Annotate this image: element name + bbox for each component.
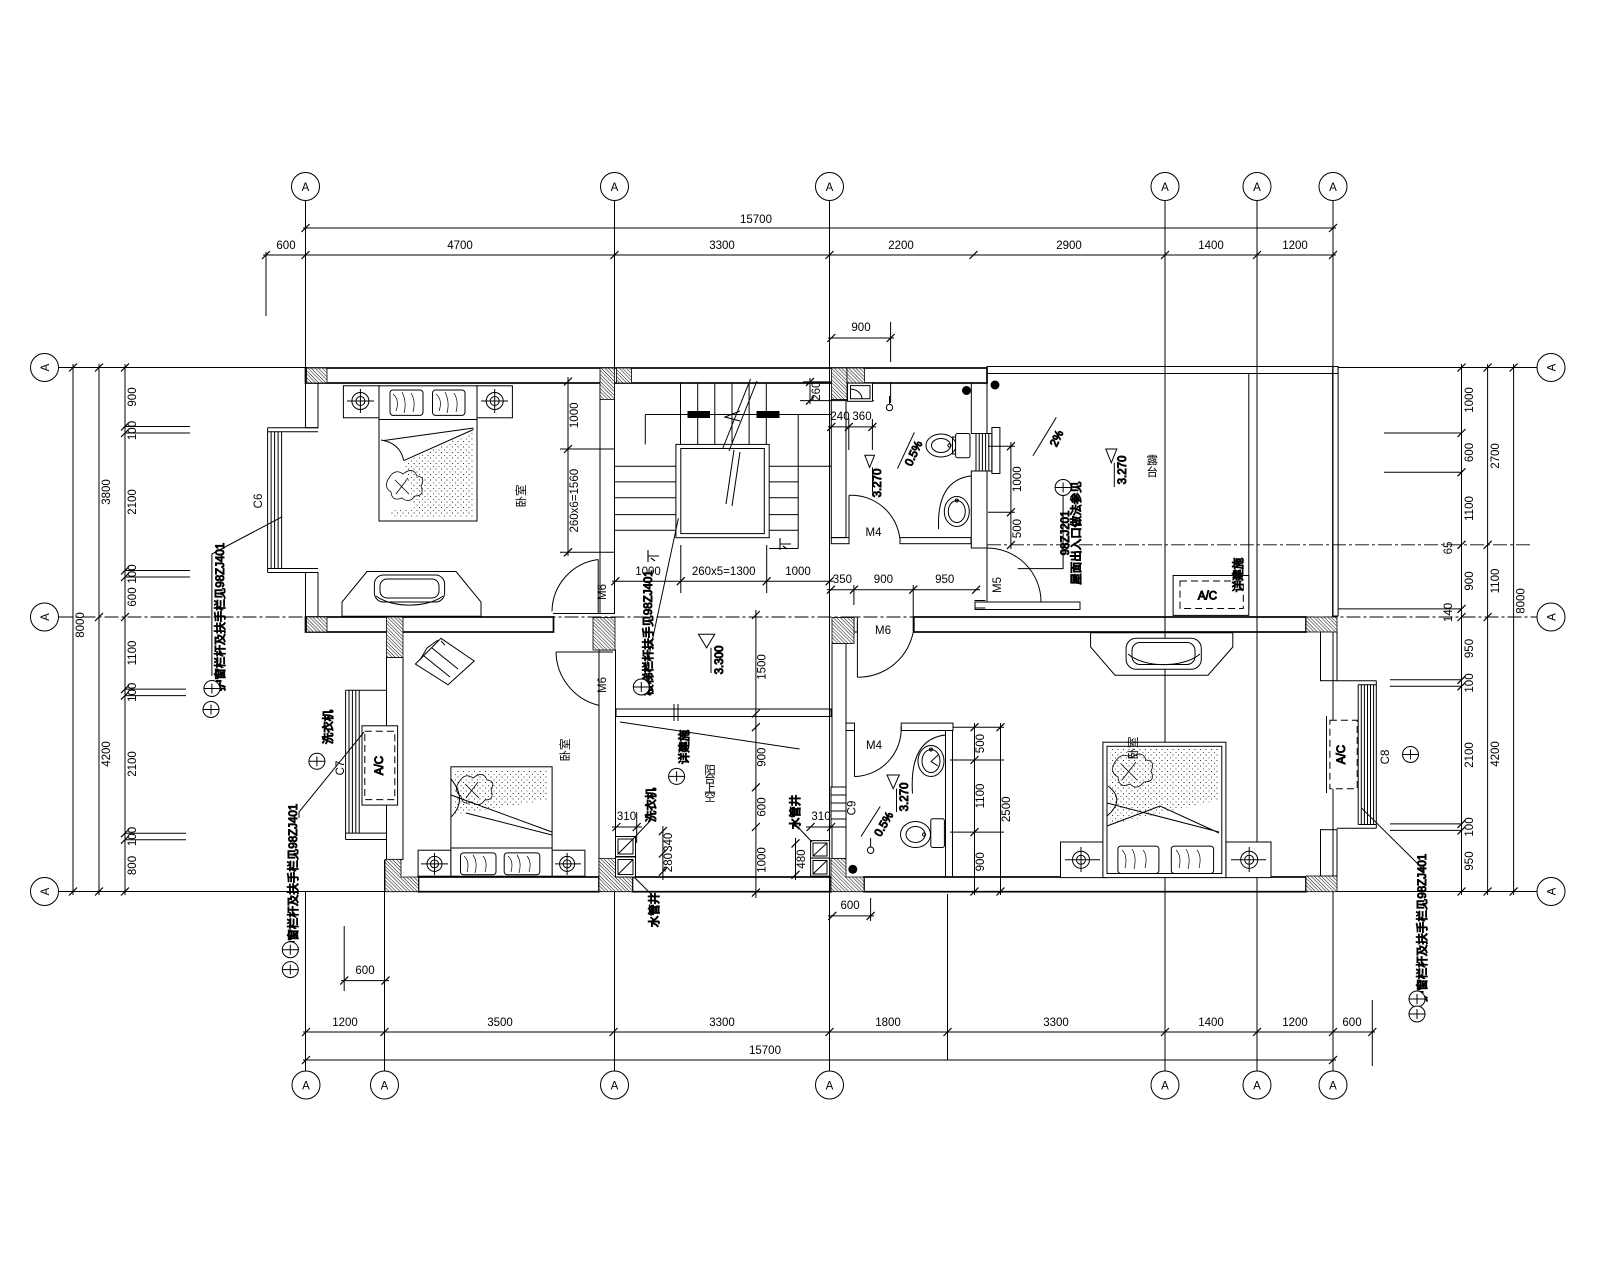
wardrobe chair rotated (415, 638, 474, 685)
wall left upper (306, 383, 319, 428)
slope 2% terrace (1033, 417, 1056, 456)
wire vertical axis A-614 (614, 201, 616, 369)
node grid bubble bottom B4 (816, 1071, 844, 1099)
stair well outer (676, 444, 769, 537)
svg-text:360: 360 (852, 411, 871, 423)
nightstand right (552, 850, 585, 876)
pier balcony wall bottom L (385, 859, 419, 891)
door M6 bottom-right bedroom (856, 622, 858, 678)
pier W2 top (832, 618, 854, 644)
wire horizontal axis row-367 (59, 367, 308, 369)
wall terrace bottom parapet west (975, 602, 1080, 610)
door M5 terrace (986, 548, 988, 602)
wire vertical axis A-1333 (1332, 201, 1334, 1072)
svg-text:1200: 1200 (1282, 240, 1308, 252)
leader notes right C8 (1361, 808, 1422, 872)
svg-text:M6: M6 (597, 584, 609, 600)
dresser with stool (1091, 633, 1233, 675)
pier bedroom2 top right (1306, 617, 1337, 632)
svg-text:台: 台 (1147, 465, 1159, 479)
svg-text:M6: M6 (597, 677, 609, 693)
svg-text:3300: 3300 (1043, 1017, 1069, 1029)
svg-text:屋面出入口做法参见: 屋面出入口做法参见 (1069, 481, 1083, 585)
floor drain dots (963, 387, 971, 395)
flower deco 3 (1113, 754, 1153, 787)
bottom-right bedroom furniture (1061, 633, 1272, 878)
node grid bubble left L2 (31, 603, 59, 631)
bottom-left bedroom furniture (415, 638, 584, 876)
bottom dimension row 15700 (303, 1059, 1336, 1061)
wall bathroom2 top right (901, 723, 953, 730)
svg-text:详建施: 详建施 (677, 729, 691, 764)
node grid bubble top A5 (1243, 173, 1271, 201)
svg-text:600: 600 (355, 965, 374, 977)
level marker 3.270 bathroom2 (887, 775, 899, 789)
svg-text:洗衣机: 洗衣机 (644, 787, 658, 822)
svg-text:260x5=1300: 260x5=1300 (692, 566, 756, 578)
right dimension columns (1338, 364, 1528, 896)
pier balcony wall top (387, 617, 404, 658)
svg-text:600: 600 (841, 900, 860, 912)
svg-text:1100: 1100 (1490, 569, 1502, 594)
nightstand left (343, 386, 379, 418)
door M4 bathroom1 (848, 495, 850, 539)
svg-text:240: 240 (830, 411, 849, 423)
svg-text:2200: 2200 (888, 240, 914, 252)
grid bubbles (31, 173, 1566, 1100)
svg-text:900: 900 (757, 748, 769, 767)
wire horizontal axis row-617 dash-dot (59, 616, 1538, 618)
svg-text:1100: 1100 (127, 641, 139, 666)
svg-text:1000: 1000 (1464, 387, 1476, 413)
node grid bubble right R1 (1537, 354, 1565, 382)
svg-text:1500: 1500 (757, 654, 769, 680)
svg-text:空: 空 (704, 790, 716, 804)
svg-text:1000: 1000 (569, 403, 581, 429)
stair down glyph right (780, 538, 791, 550)
svg-text:900: 900 (127, 387, 139, 406)
svg-text:A/C: A/C (1336, 745, 1348, 764)
svg-text:M6: M6 (875, 625, 891, 637)
svg-text:15700: 15700 (749, 1045, 781, 1057)
wall bathroom2 top jamb (846, 723, 855, 730)
left dimension columns (69, 364, 190, 896)
dresser with stool top-left room (342, 572, 481, 617)
wire vertical axis A-384 (384, 860, 386, 1071)
svg-text:310: 310 (617, 811, 636, 823)
shower tray (848, 383, 873, 401)
dimension 600 at balcony (341, 980, 389, 982)
svg-text:C6: C6 (253, 494, 265, 509)
svg-text:3.270: 3.270 (1117, 456, 1129, 485)
wire vertical axis A-1165 (1164, 201, 1166, 1072)
bed 1 (379, 386, 477, 521)
wall left lower (306, 573, 319, 633)
svg-text:950: 950 (1464, 639, 1476, 658)
dims 240 360 (828, 426, 876, 428)
svg-text:1200: 1200 (1282, 1017, 1308, 1029)
pipe shaft squares (811, 841, 830, 859)
wall jamb middle (854, 617, 857, 632)
slope 0.5% bathroom2 (861, 807, 880, 837)
pier top-left corner (307, 368, 328, 383)
svg-text:护窗栏杆及扶手栏见98ZJ401: 护窗栏杆及扶手栏见98ZJ401 (286, 804, 300, 952)
svg-text:C9: C9 (847, 801, 859, 816)
flower deco 2 (456, 774, 492, 804)
bay window C6 (268, 428, 318, 573)
pier stair left (600, 368, 615, 400)
svg-text:1000: 1000 (757, 847, 769, 873)
level marker 3.270 bathroom1 (698, 417, 1129, 838)
svg-text:950: 950 (1464, 851, 1476, 870)
svg-text:600: 600 (276, 240, 295, 252)
threshold line top-left bedroom door (553, 613, 611, 615)
bathroom1 fixtures (848, 381, 1000, 529)
node grid bubble top A1 (292, 173, 320, 201)
dimension 900 above bathroom (828, 337, 894, 339)
wall W2 upper (832, 644, 846, 788)
stair right flight treads (769, 465, 831, 467)
svg-text:3500: 3500 (487, 1017, 513, 1029)
door M4 bathroom2 (854, 728, 856, 777)
pier middle row left end (307, 617, 328, 632)
svg-text:1000: 1000 (785, 566, 811, 578)
top-left bedroom furniture (343, 386, 512, 521)
door M6 top-left bedroom (597, 560, 599, 614)
svg-text:260: 260 (811, 382, 823, 401)
wall top exterior (306, 368, 988, 383)
top dimension row 15700 (262, 214, 1376, 1066)
bathroom1 dims 350 900 950 (800, 378, 1024, 631)
svg-text:M4: M4 (866, 527, 883, 539)
wire vertical axis A-947 (947, 894, 949, 1060)
walls (306, 367, 1339, 892)
wall balcony void parapet (616, 709, 831, 717)
pier W1 bottom L (599, 859, 633, 892)
wall bedroom2 right lower (1321, 830, 1338, 876)
svg-text:楼梯栏杆扶手见98ZJ401: 楼梯栏杆扶手见98ZJ401 (641, 570, 655, 695)
wall terrace top parapet (987, 367, 1338, 374)
node grid bubble right R3 (1537, 878, 1565, 906)
wire vertical axis A-829 (829, 201, 831, 1072)
level marker 3.270 terrace (1106, 449, 1117, 463)
svg-text:310: 310 (811, 811, 830, 823)
svg-text:2700: 2700 (1490, 443, 1502, 469)
axis grid lines (59, 201, 1538, 1072)
svg-text:2900: 2900 (1056, 240, 1082, 252)
stair direction arrow with break (729, 381, 757, 451)
svg-text:100: 100 (127, 564, 139, 583)
wall middle row left (306, 617, 554, 632)
slope 0.5% bathroom1 (898, 432, 915, 468)
bathroom2 dims (828, 723, 1013, 921)
node grid bubble right R2 (1537, 603, 1565, 631)
node grid bubble top A2 (601, 173, 629, 201)
svg-text:A/C: A/C (1198, 591, 1217, 603)
door window labels (253, 494, 1392, 816)
node grid bubble top A3 (816, 173, 844, 201)
window C8 bay (1337, 681, 1377, 829)
svg-text:3.270: 3.270 (872, 469, 884, 498)
flower deco (386, 470, 422, 500)
wall balcony divider (387, 658, 404, 860)
toilet 1 (926, 434, 956, 457)
svg-text:500: 500 (1012, 519, 1024, 538)
pier W1 top (593, 618, 615, 651)
svg-text:卧室: 卧室 (514, 485, 528, 508)
pier top wall seg (617, 368, 632, 383)
roof access note (1055, 480, 1071, 496)
svg-text:3800: 3800 (101, 479, 113, 505)
nightstand right (477, 386, 512, 418)
toilet 2 (901, 822, 931, 848)
pier top wall seg2 (847, 368, 865, 383)
hatched piers (307, 368, 1338, 892)
wall stair left (600, 383, 615, 614)
C8 A/C unit (1327, 716, 1358, 793)
wall bathroom1 left (831, 400, 846, 538)
node grid bubble left L1 (31, 354, 59, 382)
svg-text:100: 100 (1464, 673, 1476, 692)
terrace dims 1000 500 (1010, 442, 1012, 549)
bed 3 (1103, 742, 1226, 877)
svg-text:600: 600 (1464, 443, 1476, 462)
bathroom2 fixtures (849, 735, 946, 873)
node grid bubble bottom B3 (601, 1071, 629, 1099)
svg-text:护窗栏杆及扶手栏见98ZJ401: 护窗栏杆及扶手栏见98ZJ401 (213, 543, 227, 691)
bottom dimension row segments (303, 1031, 1375, 1033)
svg-text:100: 100 (1464, 817, 1476, 836)
wire horizontal axis row-891 (59, 891, 389, 893)
top dimension row segments (263, 254, 1336, 256)
laundry dims (612, 811, 835, 880)
svg-text:A/C: A/C (374, 756, 386, 775)
svg-text:1100: 1100 (1464, 496, 1476, 521)
svg-text:4700: 4700 (447, 240, 473, 252)
pier bathroom1 left (832, 368, 848, 400)
pier bottom right corner (1306, 876, 1337, 892)
svg-text:3.270: 3.270 (899, 783, 911, 812)
svg-text:M5: M5 (992, 577, 1004, 593)
dim 260 vertical (809, 378, 811, 404)
wire horizontal axis row-545 dash-dot (987, 544, 1530, 546)
wall W1 bedroom/hall (599, 650, 616, 877)
tick pair on void wall (673, 704, 675, 721)
svg-text:100: 100 (127, 421, 139, 440)
svg-text:280: 280 (663, 853, 675, 872)
svg-text:8000: 8000 (75, 612, 87, 638)
window C7 balcony rail (346, 690, 387, 839)
svg-text:护窗栏杆及扶手栏见98ZJ401: 护窗栏杆及扶手栏见98ZJ401 (1415, 854, 1429, 1002)
svg-text:详建施: 详建施 (1231, 557, 1245, 592)
svg-text:900: 900 (874, 574, 893, 586)
node grid bubble bottom B7 (1319, 1071, 1347, 1099)
svg-text:4200: 4200 (1490, 741, 1502, 767)
stair upper flight treads (680, 383, 682, 445)
terrace inner edge line (1248, 373, 1250, 610)
wall bottom right segment (864, 877, 1306, 892)
svg-text:洗衣机: 洗衣机 (321, 709, 335, 744)
leader note stair rail (644, 518, 678, 679)
svg-text:350: 350 (833, 574, 852, 586)
svg-text:1400: 1400 (1198, 1017, 1224, 1029)
svg-text:1200: 1200 (332, 1017, 358, 1029)
svg-text:340: 340 (663, 833, 675, 852)
svg-text:1400: 1400 (1198, 240, 1224, 252)
wire vertical axis A-305 (305, 201, 307, 369)
wire vertical axis A-1257 (1256, 201, 1258, 1072)
svg-text:露: 露 (1147, 454, 1159, 467)
node grid bubble top A6 (1319, 173, 1347, 201)
stair railing top (645, 414, 831, 416)
wall bathroom1 right lower (971, 471, 987, 548)
stair down glyph left (648, 550, 659, 562)
hall dims 1500 900 600 1000 (752, 610, 769, 898)
leader notes left C6 (203, 344, 1429, 1022)
node grid bubble bottom B5 (1151, 1071, 1179, 1099)
svg-text:1000: 1000 (1012, 466, 1024, 492)
stair (615, 379, 831, 562)
svg-text:2500: 2500 (1001, 797, 1013, 823)
svg-text:260x6=1560: 260x6=1560 (569, 469, 581, 533)
svg-text:3.300: 3.300 (714, 646, 726, 675)
room labels (514, 454, 1159, 804)
stair well inner (681, 449, 765, 534)
door M6 bottom-left bedroom (556, 651, 613, 653)
wall bottom mid segment (633, 877, 832, 892)
wall bathroom2 right (946, 731, 953, 878)
nightstand right (1226, 842, 1271, 878)
svg-text:3300: 3300 (709, 240, 735, 252)
wash basin 2 (912, 735, 945, 794)
svg-text:M4: M4 (866, 740, 883, 752)
window C9 upper bathroom (louvre) (976, 428, 1000, 474)
bed 2 (451, 767, 552, 876)
doors (552, 495, 1041, 776)
svg-text:600: 600 (757, 797, 769, 816)
svg-text:900: 900 (851, 322, 870, 334)
wash basin 1 (938, 476, 971, 529)
svg-text:100: 100 (127, 827, 139, 846)
svg-text:600: 600 (1342, 1017, 1361, 1029)
svg-text:600: 600 (127, 587, 139, 606)
svg-text:500: 500 (975, 734, 987, 753)
dim 600 below bathroom2 (828, 915, 874, 917)
node grid bubble bottom B6 (1243, 1071, 1271, 1099)
node grid bubble top A4 (1151, 173, 1179, 201)
svg-text:卧室: 卧室 (558, 739, 572, 762)
svg-text:C7: C7 (335, 761, 347, 776)
terrace A/C unit (1173, 576, 1249, 616)
wall bottom left segment (419, 877, 600, 892)
stair left flight treads (615, 465, 676, 467)
wall bathroom1 bottom (831, 538, 849, 544)
svg-text:140: 140 (1443, 603, 1455, 622)
svg-text:1800: 1800 (875, 1017, 901, 1029)
svg-text:100: 100 (127, 683, 139, 702)
svg-text:2100: 2100 (127, 489, 139, 515)
wall W2 lower (832, 827, 846, 859)
wall terrace right parapet (1333, 367, 1339, 617)
nightstand left (418, 850, 451, 876)
svg-text:水管井: 水管井 (647, 893, 661, 928)
svg-text:900: 900 (975, 852, 987, 871)
wall bedroom2 right upper (1321, 632, 1338, 681)
window C9 lower bathroom (louvre) (831, 787, 846, 827)
node grid bubble bottom B2 (371, 1071, 399, 1099)
svg-text:卧室: 卧室 (1126, 737, 1140, 760)
laundry appliance squares (616, 837, 830, 878)
svg-text:65: 65 (1443, 542, 1455, 555)
level marker 3.300 hall (698, 634, 714, 648)
wall middle row right of door (914, 617, 1306, 632)
drains (867, 847, 873, 853)
svg-text:2100: 2100 (127, 751, 139, 777)
wall bathroom1 right upper (971, 383, 987, 434)
svg-text:C8: C8 (1380, 750, 1392, 765)
node grid bubble bottom B1 (292, 1071, 320, 1099)
stair dims (560, 377, 834, 593)
svg-text:15700: 15700 (740, 214, 772, 226)
svg-text:1100: 1100 (975, 784, 987, 809)
svg-text:950: 950 (935, 574, 954, 586)
svg-text:4200: 4200 (101, 741, 113, 767)
svg-text:8000: 8000 (1516, 588, 1528, 614)
node grid bubble left L3 (31, 878, 59, 906)
nightstand left (1061, 842, 1108, 878)
balcony A/C unit (362, 726, 398, 805)
pier W2 bottom L (831, 859, 864, 892)
svg-text:900: 900 (1464, 571, 1476, 590)
svg-text:800: 800 (127, 856, 139, 875)
svg-text:3300: 3300 (709, 1017, 735, 1029)
svg-text:480: 480 (796, 850, 808, 869)
leader notes balcony C7 (299, 732, 364, 818)
svg-text:2100: 2100 (1464, 742, 1476, 768)
